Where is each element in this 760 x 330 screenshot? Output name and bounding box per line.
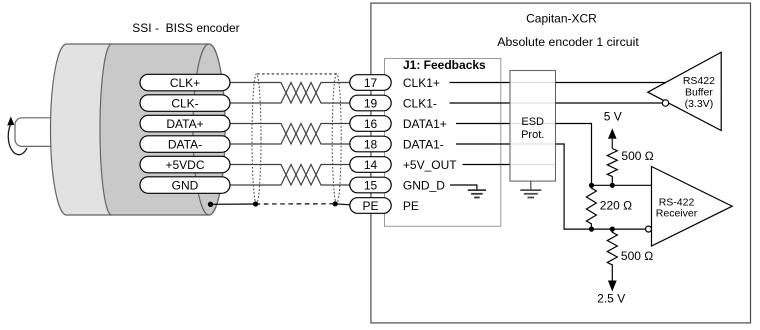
svg-text:CLK1-: CLK1- bbox=[403, 96, 437, 110]
svg-text:J1: Feedbacks: J1: Feedbacks bbox=[403, 58, 486, 72]
svg-text:18: 18 bbox=[364, 137, 378, 151]
svg-text:14: 14 bbox=[364, 158, 378, 172]
op-amp RS422 buffer bbox=[648, 52, 721, 130]
svg-text:+5V_OUT: +5V_OUT bbox=[403, 158, 457, 172]
svg-text:Absolute encoder 1 circuit: Absolute encoder 1 circuit bbox=[497, 35, 639, 49]
main box Capitan-XCR bbox=[371, 3, 751, 323]
encoder body front (dark gray) bbox=[100, 44, 225, 215]
J1 feedback connector box bbox=[385, 59, 501, 227]
wire DATA1+ down to node A bbox=[556, 124, 592, 186]
svg-text:Prot.: Prot. bbox=[521, 129, 544, 141]
wire DATA1- down to node B bbox=[556, 144, 646, 229]
ground ESD bbox=[520, 190, 541, 197]
svg-text:17: 17 bbox=[364, 76, 378, 90]
encoder pill GND bbox=[140, 177, 230, 194]
svg-text:PE: PE bbox=[403, 199, 419, 213]
pin pill 14 bbox=[350, 157, 391, 173]
encoder pill +5VDC bbox=[140, 156, 230, 173]
svg-text:CLK+: CLK+ bbox=[170, 76, 200, 90]
node B junction dot (220 ohm bottom) bbox=[589, 227, 594, 232]
cable shield top dashed line bbox=[257, 73, 336, 75]
svg-text:15: 15 bbox=[364, 178, 378, 192]
svg-text:19: 19 bbox=[364, 96, 378, 110]
wire +5VDC (twisted) bbox=[230, 165, 350, 186]
svg-text:GND: GND bbox=[172, 178, 199, 192]
ESD protection box bbox=[510, 71, 556, 182]
pin pill 17 bbox=[350, 75, 391, 91]
wire ESD to ground bbox=[530, 181, 532, 189]
svg-text:GND_D: GND_D bbox=[403, 178, 445, 192]
svg-text:5 V: 5 V bbox=[604, 109, 622, 123]
encoder front face ellipse bbox=[193, 44, 225, 215]
svg-text:Capitan-XCR: Capitan-XCR bbox=[526, 11, 597, 25]
wire node A to receiver bbox=[592, 184, 652, 186]
wire +5V_OUT to ESD bbox=[463, 164, 511, 166]
5V arrowhead bbox=[608, 128, 617, 139]
svg-text:RS422: RS422 bbox=[683, 75, 715, 87]
svg-text:500 Ω: 500 Ω bbox=[621, 249, 653, 263]
svg-text:220 Ω: 220 Ω bbox=[600, 199, 632, 213]
cable shield left ellipse bbox=[252, 74, 261, 204]
encoder pill DATA+ bbox=[140, 115, 230, 132]
svg-text:(3.3V): (3.3V) bbox=[685, 98, 714, 110]
wire CLK1- to buffer bubble bbox=[556, 102, 663, 104]
svg-text:PE: PE bbox=[362, 199, 378, 213]
svg-text:+5VDC: +5VDC bbox=[165, 158, 204, 172]
encoder pill CLK- bbox=[140, 95, 230, 112]
encoder shaft bbox=[15, 118, 53, 147]
svg-text:500 Ω: 500 Ω bbox=[621, 149, 653, 163]
svg-text:DATA+: DATA+ bbox=[166, 117, 203, 131]
svg-text:Receiver: Receiver bbox=[656, 207, 698, 219]
svg-text:DATA1-: DATA1- bbox=[403, 137, 444, 151]
svg-text:Buffer: Buffer bbox=[685, 87, 713, 99]
receiver inverting bubble bbox=[646, 226, 652, 232]
wire CLK+ (twisted) bbox=[230, 83, 350, 104]
pin pill 16 bbox=[350, 116, 391, 132]
resistor 500 ohm bottom bbox=[607, 229, 617, 282]
op-amp RS-422 receiver bbox=[652, 167, 733, 247]
encoder pill DATA- bbox=[140, 136, 230, 153]
wire GND (twisted) bbox=[230, 165, 350, 186]
svg-text:SSI - BISS encoder: SSI - BISS encoder bbox=[132, 21, 239, 35]
wire DATA1+ to ESD bbox=[456, 123, 510, 125]
svg-text:CLK-: CLK- bbox=[171, 96, 198, 110]
node A junction dot (220 ohm top) bbox=[589, 183, 594, 188]
shield junction dot right bbox=[333, 201, 338, 206]
faint pass-through rows in ESD box bbox=[511, 83, 555, 165]
wire shield to PE (solid stub) bbox=[211, 203, 256, 205]
wire shield to PE pin (solid stub) bbox=[335, 204, 350, 205]
svg-text:16: 16 bbox=[364, 117, 378, 131]
wire CLK1- to ESD bbox=[450, 102, 511, 104]
resistor 220 ohm bbox=[586, 185, 596, 229]
wire DATA- (twisted) bbox=[230, 124, 350, 145]
wire DATA+ (twisted) bbox=[230, 124, 350, 145]
resistor 500 ohm top bbox=[607, 149, 617, 186]
pin pill PE bbox=[350, 198, 391, 214]
buffer inverting bubble bbox=[662, 100, 668, 106]
wire CLK1+ to ESD bbox=[450, 82, 511, 84]
encoder body rear (light gray) bbox=[51, 44, 112, 215]
pin pill 18 bbox=[350, 136, 391, 152]
encoder pill CLK+ bbox=[140, 74, 230, 91]
wire shield drain (dashed) bbox=[256, 203, 336, 205]
svg-text:DATA-: DATA- bbox=[168, 137, 202, 151]
cable shield right ellipse bbox=[332, 74, 341, 204]
wire CLK- (twisted) bbox=[230, 83, 350, 104]
wire GND_D to ground bbox=[450, 185, 477, 190]
shield junction dot left bbox=[253, 201, 258, 206]
pin pill 15 bbox=[350, 177, 391, 193]
ground GND_D bbox=[468, 190, 486, 197]
shield junction dot on encoder bbox=[208, 202, 213, 207]
svg-text:CLK1+: CLK1+ bbox=[403, 76, 440, 90]
5V supply arrow bbox=[611, 139, 613, 149]
pin pill 19 bbox=[350, 95, 391, 111]
node A junction dot (500 ohm bottom) bbox=[610, 183, 615, 188]
wire DATA1- to ESD bbox=[456, 143, 510, 145]
rotation arrow bbox=[8, 124, 27, 154]
svg-text:ESD: ESD bbox=[521, 116, 544, 128]
wire CLK1+ to buffer bbox=[556, 82, 666, 84]
svg-text:DATA1+: DATA1+ bbox=[403, 117, 447, 131]
2.5V supply arrow bbox=[608, 281, 617, 292]
node B junction dot (500 ohm top) bbox=[610, 227, 615, 232]
svg-text:2.5 V: 2.5 V bbox=[597, 292, 625, 306]
